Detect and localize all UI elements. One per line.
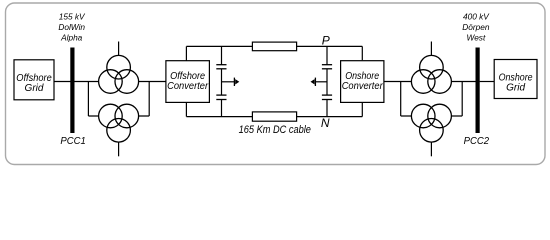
wire stub T4 tertiary xyxy=(430,142,432,156)
outer frame xyxy=(6,3,546,165)
svg-text:155 kV: 155 kV xyxy=(59,12,86,22)
svg-text:West: West xyxy=(467,33,486,43)
wire offshore grid to bus to transformer top xyxy=(54,81,99,83)
box Offshore Converter xyxy=(166,61,210,103)
wire stub T2 tertiary xyxy=(118,142,120,156)
transformer T3 (onshore top) xyxy=(411,55,451,93)
svg-text:165 Km DC cable: 165 Km DC cable xyxy=(239,124,311,136)
busbar PCC2 xyxy=(476,48,480,134)
wire top DC rail right segment xyxy=(297,46,363,60)
wire right transformers to bus xyxy=(452,81,476,83)
svg-text:DolWin: DolWin xyxy=(58,22,85,32)
cable P (positive pole) xyxy=(252,42,296,51)
transformer T4 (onshore bottom) xyxy=(411,104,451,142)
wire bus to onshore grid xyxy=(480,81,495,83)
capacitor C4 (onshore DC link lower) xyxy=(322,95,332,117)
wire right link of right transformers xyxy=(452,82,463,117)
wire bottom DC rail left segment xyxy=(186,116,252,118)
capacitor C1 (offshore DC link upper) xyxy=(216,46,226,95)
svg-text:Alpha: Alpha xyxy=(60,33,83,43)
svg-text:Converter: Converter xyxy=(342,81,384,92)
box Onshore Converter xyxy=(341,61,384,103)
ground arrow onshore midpoint xyxy=(311,78,328,86)
svg-text:Dörpen: Dörpen xyxy=(462,22,490,32)
wire offshore converter bottom to N rail xyxy=(185,102,187,116)
svg-text:PCC2: PCC2 xyxy=(464,136,490,147)
svg-text:PCC1: PCC1 xyxy=(60,136,85,147)
svg-text:N: N xyxy=(321,116,330,130)
wire top DC rail left segment xyxy=(186,45,252,47)
wire transformers to offshore converter xyxy=(139,81,166,83)
wire right link of left transformers xyxy=(139,82,150,117)
capacitor C3 (onshore DC link upper) xyxy=(322,46,332,95)
svg-text:Converter: Converter xyxy=(167,81,209,92)
wire right tee down to bottom transformer xyxy=(401,82,411,117)
busbar PCC1 xyxy=(70,48,74,134)
wire bottom DC rail right segment xyxy=(297,103,363,117)
ground arrow offshore midpoint xyxy=(222,78,240,86)
transformer T2 (offshore bottom) xyxy=(99,104,139,142)
box Onshore Grid xyxy=(494,60,537,99)
wire left tee down to bottom transformer xyxy=(88,82,98,117)
svg-text:P: P xyxy=(322,33,330,47)
transformer T1 (offshore top) xyxy=(99,55,139,93)
wire stub T3 tertiary xyxy=(430,42,432,56)
box Offshore Grid xyxy=(14,60,54,100)
wire stub T1 tertiary xyxy=(118,42,120,56)
cable N (negative pole) xyxy=(252,112,296,121)
svg-text:Grid: Grid xyxy=(25,83,44,94)
wire onshore converter to right transformers xyxy=(384,81,411,83)
wire offshore converter top to P rail xyxy=(185,46,187,60)
capacitor C2 (offshore DC link lower) xyxy=(216,95,226,117)
svg-text:Grid: Grid xyxy=(506,82,525,93)
svg-text:400 kV: 400 kV xyxy=(463,12,490,22)
